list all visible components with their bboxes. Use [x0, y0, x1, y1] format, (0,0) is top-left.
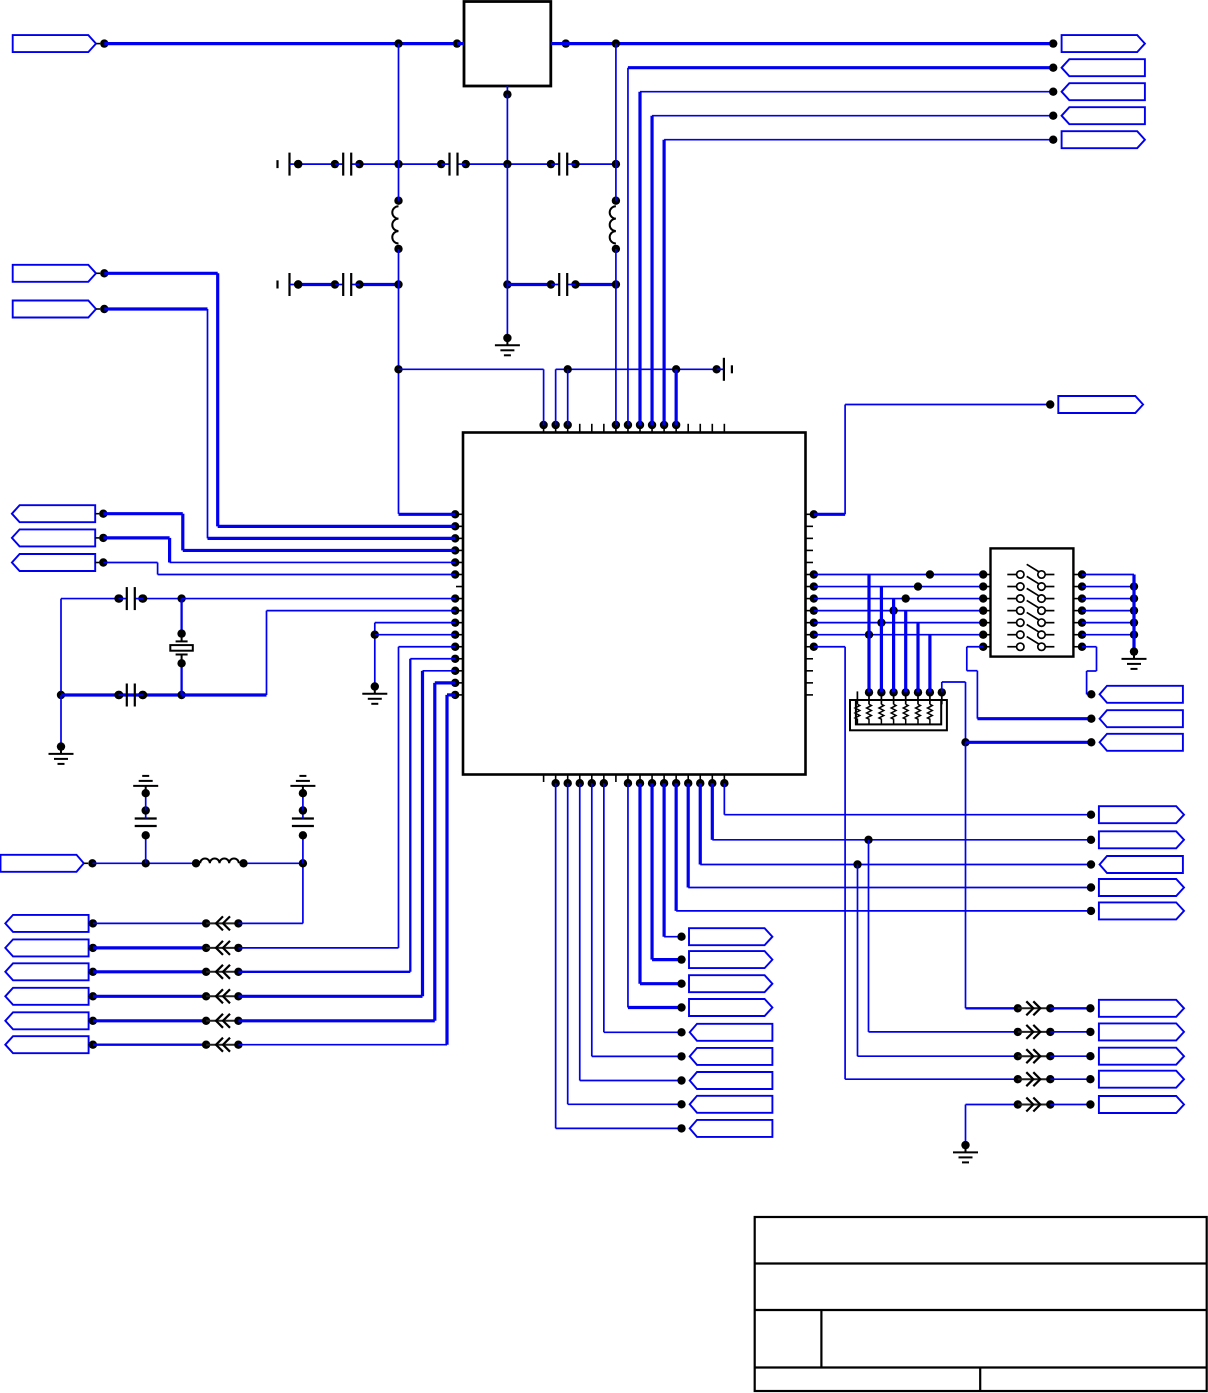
connector flag J9 (left A) [12, 505, 108, 522]
wire FB4 to IC pin via riser [238, 671, 455, 996]
wire chevron row1 [966, 1001, 1095, 1015]
connector flag J12 (bottom-left row1) [5, 915, 97, 932]
wire VDD rail segment B [556, 365, 717, 425]
IC U1 bottom pins [544, 775, 729, 788]
connector flag J31 (right mid row4) [1099, 879, 1184, 896]
wire IC right pin to DIP row2 [814, 582, 983, 590]
EMI filter FB1 (double chevron) [206, 916, 242, 930]
connector flag J40 (bottom-right row4) [1099, 1071, 1184, 1088]
IC U1 microcontroller body [463, 433, 806, 775]
capacitor C9 (crystal top) [114, 587, 147, 610]
connector flag J14 (bottom-left row3) [5, 963, 97, 980]
ground GND2 (crystal) [49, 747, 74, 764]
inductor L3 (horizontal) [200, 858, 239, 863]
connector flag J25 (below IC row7) [690, 1072, 773, 1089]
wire FB1 to inductor rail [238, 863, 303, 923]
capacitor C6 (row2) [331, 273, 364, 296]
EMI filter FB2 (double chevron) [206, 941, 242, 955]
wire FB3 to IC pin via riser [238, 659, 455, 972]
wire DIP outputs to ground bus [1082, 575, 1138, 656]
wire IC bottom pin to flag J24 [592, 783, 686, 1060]
wire IC bottom pin to flag J26 [568, 783, 686, 1108]
wire column x615 row2-to-IC [615, 44, 617, 425]
connector flag J10 (left B) [12, 529, 108, 546]
connector flag J15 (bottom-left row4) [5, 988, 97, 1005]
wire IC bottom pin to flag J27 [556, 783, 686, 1132]
wire flag J14 to filter FB3 [93, 968, 210, 976]
wire IC bottom pin to flag J20 [652, 783, 686, 964]
inductor L2 [610, 164, 620, 284]
connector flag J33 (right row y694) [1100, 686, 1183, 703]
EMI filter FB7 (double chevron right) [0, 0, 1, 1]
wire chevron row4 [845, 1072, 1095, 1086]
EMI filter FB9 (double chevron right) [0, 0, 1, 1]
wire LC row2 left [294, 280, 403, 288]
wire IC right pin R1 to flag J36 [814, 400, 1055, 514]
wire resistor network pullups to DIP rows [869, 575, 930, 693]
wire column x398 rail-to-IC [399, 44, 456, 515]
connector flag J17 (bottom-left row6) [5, 1036, 97, 1053]
wire DIP pin7 right to flag J33 [1082, 647, 1097, 699]
DIP switch S1 body [991, 548, 1074, 656]
connector flag J24 (below IC row6) [690, 1048, 773, 1065]
wire IC bottom pin to right flag J29 [712, 783, 1095, 844]
wire chevron row5 to ground [961, 1105, 969, 1150]
connector flag J3 (top-right row2) [1062, 59, 1145, 76]
wire net to IC top pin / flag J3 [628, 63, 1057, 425]
connector flag J27 (below IC row9) [690, 1120, 773, 1137]
connector flag J2 (top-right row1) [1062, 35, 1145, 52]
connector flag J13 (bottom-left row2) [5, 939, 97, 956]
resistor network RN1 pins [857, 688, 946, 704]
connector flag J16 (bottom-left row5) [5, 1012, 97, 1029]
EMI filter FB8 (double chevron right) [0, 0, 1, 1]
capacitor C2 (row1) [331, 153, 364, 176]
wire net to IC top pin / flag J6 [664, 136, 1057, 426]
wire LC row1 [294, 160, 620, 168]
wire transformer bottom pin [503, 86, 511, 164]
wire crystal top rail [61, 594, 455, 602]
EMI filter FB3 (double chevron) [206, 965, 242, 979]
wire FB2 to IC pin via riser [238, 647, 455, 948]
wire net to IC top pin / flag J5 [652, 112, 1057, 426]
wire IC right pin to DIP row1 [814, 570, 983, 578]
resistor network RN1 elements R1-R7 [855, 704, 932, 724]
wire FB6 to IC pin via riser [238, 695, 455, 1045]
capacitor C5 (row2 left, polarized) [278, 273, 303, 296]
capacitor C4 (row1) [547, 153, 580, 176]
DIP switch S1 pins [979, 570, 1086, 651]
wire IC bottom pin to flag J25 [580, 783, 686, 1085]
wire flag J16 to filter FB5 [93, 1017, 210, 1025]
wire transformer center column to ground [503, 164, 511, 342]
wire IC right pin R12 to bus down [814, 647, 845, 1079]
crystal Y1 [170, 634, 193, 664]
wire J9 to IC pin L4 [103, 514, 455, 551]
wire crystal column [177, 599, 185, 695]
wire IC bottom pin to flag J23 [604, 783, 686, 1036]
capacitor C3 (row1) [437, 153, 470, 176]
wire IC bottom pin to right flag J30 [700, 783, 1095, 869]
connector flag J18 (left, power in) [1, 855, 97, 872]
connector flag J8 (left, row y309) [13, 301, 109, 318]
wire J11 to IC pin L6 [103, 563, 455, 575]
ground GND3 (left of IC) [362, 687, 387, 704]
wire top power rail left segment [104, 39, 461, 47]
capacitor C12 (pullup to VCC) [292, 789, 314, 863]
wire top power rail right segment [551, 39, 1058, 47]
connector flag J34 (right row y718) [1100, 710, 1183, 727]
wire IC right pin to DIP row6 [814, 631, 983, 639]
connector flag J4 (top-right row3) [1062, 83, 1145, 100]
capacitor C7 (row2) [547, 273, 580, 296]
wire chevron row2 [869, 840, 1095, 1039]
ground GND5 (bottom-right) [953, 1145, 978, 1162]
wire J7 to IC pin L2 [104, 273, 455, 526]
connector flag J29 (right mid row2) [1099, 831, 1184, 848]
connector flag J30 (right mid row3) [1100, 856, 1183, 873]
IC U1 left pins [451, 510, 463, 699]
DIP switch S1 switch elements [1007, 564, 1054, 650]
connector flag J36 (right y404) [1058, 396, 1143, 413]
power symbol VCC1 (inverted ground bars) [133, 776, 158, 793]
wire IC bottom pin to right flag J31 [688, 783, 1095, 892]
power symbol VCC2 (inverted ground bars) [290, 776, 315, 793]
ground GND1 (below transformer) [495, 338, 520, 355]
EMI filter FB11 (double chevron right) [0, 0, 1, 1]
EMI filter FB4 (double chevron) [206, 989, 242, 1003]
transformer T1 (common-mode choke module) [464, 2, 551, 87]
wire chevron row5 [966, 1098, 1095, 1112]
wire IC pins L10/L11 to ground [371, 623, 456, 691]
capacitor C8 (rail decoupling) [712, 358, 732, 381]
connector flag J28 (right mid row1) [1099, 806, 1184, 823]
wire flag J17 to filter FB6 [93, 1041, 210, 1049]
wire flag J12 to filter FB1 [93, 919, 210, 927]
connector flag J38 (bottom-right row2) [1099, 1023, 1184, 1040]
wire RN pin8 to flag J35 and chevron row1 [942, 682, 1096, 1008]
wire J10 to IC pin L5 [103, 538, 455, 563]
wire DIP pin7 left to flag J34 [967, 647, 1096, 723]
EMI filter FB6 (double chevron) [206, 1038, 242, 1052]
capacitor C11 (pullup to VCC) [135, 789, 157, 863]
connector flag J41 (bottom-right row5) [1099, 1096, 1184, 1113]
connector flag J7 (left, row y273) [13, 265, 109, 282]
connector flag J5 (top-right row4) [1062, 107, 1145, 124]
wire IC bottom pin to flag J21 [640, 783, 686, 988]
wire flag J15 to filter FB4 [93, 992, 210, 1000]
connector flag J1 (top-left input) [13, 35, 109, 52]
wire VDD rail segment A [394, 365, 543, 425]
wire crystal bottom rail [61, 611, 455, 700]
connector flag J22 (below IC row4) [689, 999, 772, 1016]
wire IC right pin to DIP row4 [814, 606, 983, 614]
capacitor C1 (row1 left, polarized) [278, 153, 303, 176]
IC U1 top pins [539, 421, 724, 433]
connector flag J19 (below IC row1) [689, 928, 772, 945]
resistor network RN1 body [850, 700, 947, 730]
wire LC row2 right [503, 280, 620, 288]
connector flag J20 (below IC row2) [689, 951, 772, 968]
wire transformer left pin [457, 42, 464, 45]
ground GND4 (DIP bus) [1122, 652, 1147, 669]
wire J8 to IC pin L3 [104, 309, 455, 538]
wire IC bottom pin to flag J22 [628, 783, 686, 1012]
wire chevron row3 [858, 865, 1095, 1064]
title block frame [755, 1217, 1207, 1391]
connector flag J23 (below IC row5) [690, 1024, 773, 1041]
connector flag J32 (right mid row5) [1099, 902, 1184, 919]
connector flag J11 (left C) [12, 554, 108, 571]
wire IC bottom pin to flag J19 [664, 783, 686, 941]
wire inductor rail [92, 859, 307, 867]
connector flag J39 (bottom-right row3) [1099, 1048, 1184, 1065]
wire crystal left vertical [57, 599, 65, 751]
IC U1 right pins [806, 510, 819, 695]
EMI filter FB10 (double chevron right) [0, 0, 1, 1]
wire IC right pin to DIP row3 [814, 594, 983, 602]
connector flag J21 (below IC row3) [689, 975, 772, 992]
wire IC bottom pin to right flag J28 [724, 783, 1095, 819]
wire IC right pin to DIP row5 [814, 618, 983, 626]
inductor L1 [392, 164, 402, 284]
wire IC bottom pin to right flag J32 [676, 783, 1095, 915]
connector flag J35 (right row y742) [1100, 734, 1183, 751]
connector flag J37 (bottom-right row1) [1099, 1000, 1184, 1017]
connector flag J26 (below IC row8) [690, 1096, 773, 1113]
wire FB5 to IC pin via riser [238, 683, 455, 1021]
capacitor C10 (crystal bottom) [114, 684, 147, 707]
EMI filter FB5 (double chevron) [206, 1014, 242, 1028]
wire net to IC top pin / flag J4 [640, 88, 1057, 426]
wire flag J13 to filter FB2 [93, 944, 210, 952]
connector flag J6 (top-right row5) [1062, 131, 1145, 148]
